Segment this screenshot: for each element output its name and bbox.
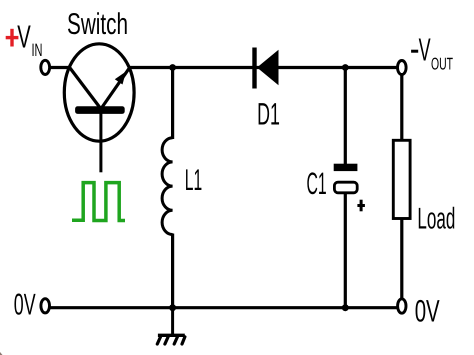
svg-text:C1: C1	[307, 166, 327, 201]
drive square wave (green)	[72, 183, 125, 221]
wire capacitor branch upper segment	[344, 68, 347, 165]
diode D1 cathode bar	[252, 48, 256, 89]
diode D1 triangle	[257, 50, 279, 86]
ground	[157, 335, 185, 344]
transistor Q1 base bar	[75, 106, 125, 114]
transistor Q1 (Switch) body circle	[64, 44, 134, 141]
svg-text:V: V	[419, 32, 431, 68]
wire top rail from +VIN terminal to -VOUT terminal	[51, 66, 397, 69]
capacitor C1 top plate	[334, 164, 358, 171]
terminal 0V left	[41, 299, 50, 313]
capacitor C1 polarity plus sign	[357, 200, 365, 212]
node junction dot bottom inductor	[169, 304, 176, 311]
corner artifact bottom-left	[0, 352, 3, 355]
wire load branch	[400, 75, 403, 299]
wire capacitor branch lower segment	[344, 193, 347, 308]
svg-text:Load: Load	[417, 203, 455, 236]
node junction dot top inductor	[169, 64, 176, 71]
svg-text:OUT: OUT	[431, 54, 453, 73]
svg-text:V: V	[17, 18, 31, 54]
label VIN	[17, 18, 42, 60]
transistor Q1 base lead	[99, 113, 102, 172]
label -VOUT	[411, 32, 453, 74]
svg-text:IN: IN	[32, 40, 43, 60]
svg-text:D1: D1	[257, 97, 280, 132]
wire inductor branch lower segment	[171, 234, 174, 308]
svg-text:Switch: Switch	[67, 8, 128, 41]
resistor Load	[393, 140, 410, 218]
inductor L1	[162, 138, 173, 235]
node junction dot bottom capacitor	[342, 304, 349, 311]
wire bottom rail from 0V left terminal to 0V right terminal	[51, 306, 397, 309]
wire inductor branch upper segment	[171, 68, 174, 140]
transistor Q1 emitter lead	[101, 69, 129, 110]
node junction dot top capacitor	[342, 64, 349, 71]
transistor Q1 emitter arrowhead	[115, 72, 126, 85]
svg-text:0V: 0V	[14, 288, 36, 321]
terminal 0V right	[398, 299, 406, 313]
wire ground stub	[171, 308, 174, 334]
terminal +VIN	[41, 60, 50, 74]
capacitor C1 bottom plate	[334, 182, 357, 193]
terminal -VOUT	[398, 61, 407, 75]
svg-text:L1: L1	[185, 164, 202, 197]
svg-text:0V: 0V	[415, 294, 440, 329]
transistor Q1 collector lead	[69, 66, 102, 109]
label +VIN plus sign (red)	[6, 29, 19, 47]
